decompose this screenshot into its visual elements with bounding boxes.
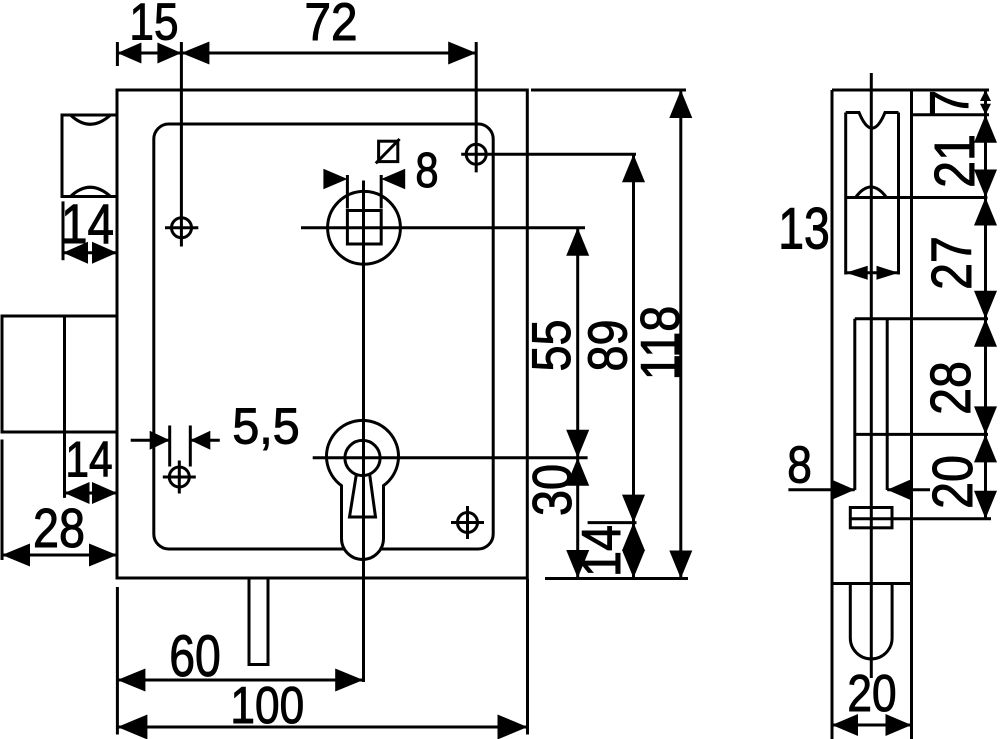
- latch bolt (side view): [846, 113, 988, 275]
- svg-text:5,5: 5,5: [232, 397, 299, 454]
- screw hole bottom-left: [163, 461, 196, 494]
- dimension 5,5 (keyhole offset): [131, 397, 300, 466]
- vertical centerline through follower and keyhole: [362, 181, 365, 683]
- dimension 14 (latch bolt height, left): [61, 193, 117, 263]
- vertical centerline of faceplate: [870, 73, 873, 678]
- deadbolt (front view, lower left): [2, 316, 117, 432]
- dimension 20 (faceplate width, bottom): [832, 665, 912, 736]
- svg-text:27: 27: [920, 236, 984, 290]
- screw hole top-left: [165, 218, 198, 238]
- dimension line 89 / 14 (x 633.5): [570, 154, 645, 578]
- top dimension line (15 / 72): [117, 42, 476, 247]
- deadbolt (side view): [855, 319, 988, 490]
- dimension line 118 (x 680.8): [531, 90, 692, 579]
- dimension 28 (deadbolt width, left): [2, 440, 117, 567]
- dimension 15 arrows: [117, 0, 181, 64]
- svg-text:20: 20: [847, 665, 896, 723]
- dimension 8 (follower square): [323, 143, 438, 209]
- svg-text:15: 15: [129, 0, 178, 51]
- svg-text:14: 14: [65, 431, 112, 487]
- svg-text:28: 28: [919, 361, 983, 415]
- latch bolt (front view, top left): [62, 115, 117, 197]
- svg-text:13: 13: [778, 197, 830, 262]
- dimension 21: [923, 115, 997, 198]
- svg-text:55: 55: [520, 320, 581, 372]
- dimension 28 (side): [919, 319, 997, 435]
- keyhole horizontal centerline: [313, 456, 588, 459]
- screw hole top-right: [461, 144, 636, 164]
- dimension 14 (deadbolt throw, left): [65, 431, 118, 504]
- lock case outer rectangle: [117, 90, 527, 578]
- faceplate strip: [832, 90, 989, 739]
- dimension 7: [918, 90, 991, 116]
- follower (square spindle hub): [328, 191, 401, 264]
- lower guide (U shape, side view): [850, 584, 892, 659]
- keyhole inner slot: [350, 475, 376, 517]
- svg-text:20: 20: [921, 455, 985, 509]
- lock case inner rounded rectangle (cover plate): [154, 124, 493, 549]
- svg-text:14: 14: [570, 525, 631, 577]
- svg-text:14: 14: [61, 193, 114, 255]
- right dimension line (7/21/27/28/20): [912, 90, 990, 519]
- dimension 8 (deadbolt thickness, side): [787, 436, 930, 500]
- fixing tab below case: [249, 578, 268, 665]
- dimension 20 (side right): [921, 434, 997, 518]
- svg-text:7: 7: [918, 90, 979, 116]
- square symbol (8 mm square spindle): [376, 139, 400, 163]
- keyhole inner circle: [345, 440, 380, 475]
- dimension line 55 / 30 (x 577.7): [520, 228, 589, 578]
- svg-text:28: 28: [33, 497, 85, 558]
- svg-text:118: 118: [629, 306, 690, 381]
- svg-text:8: 8: [787, 436, 812, 494]
- dimension 100 (bottom): [117, 579, 527, 739]
- lower joint line of faceplate: [832, 582, 912, 585]
- dimension 27: [920, 198, 997, 319]
- svg-text:30: 30: [522, 464, 583, 516]
- svg-text:21: 21: [923, 134, 987, 188]
- svg-text:72: 72: [304, 0, 357, 52]
- dimension 60 (bottom): [117, 587, 363, 735]
- svg-text:8: 8: [415, 143, 438, 198]
- faceplate screw slot: [850, 508, 991, 528]
- follower horizontal centerline: [301, 226, 585, 229]
- dimension 13 (latch width): [778, 197, 898, 280]
- svg-text:100: 100: [230, 677, 304, 735]
- svg-text:60: 60: [169, 624, 221, 689]
- dimension 72 arrows: [181, 0, 476, 65]
- screw hole bottom-right: [451, 506, 484, 539]
- keyhole (euro profile) outer: [327, 420, 399, 559]
